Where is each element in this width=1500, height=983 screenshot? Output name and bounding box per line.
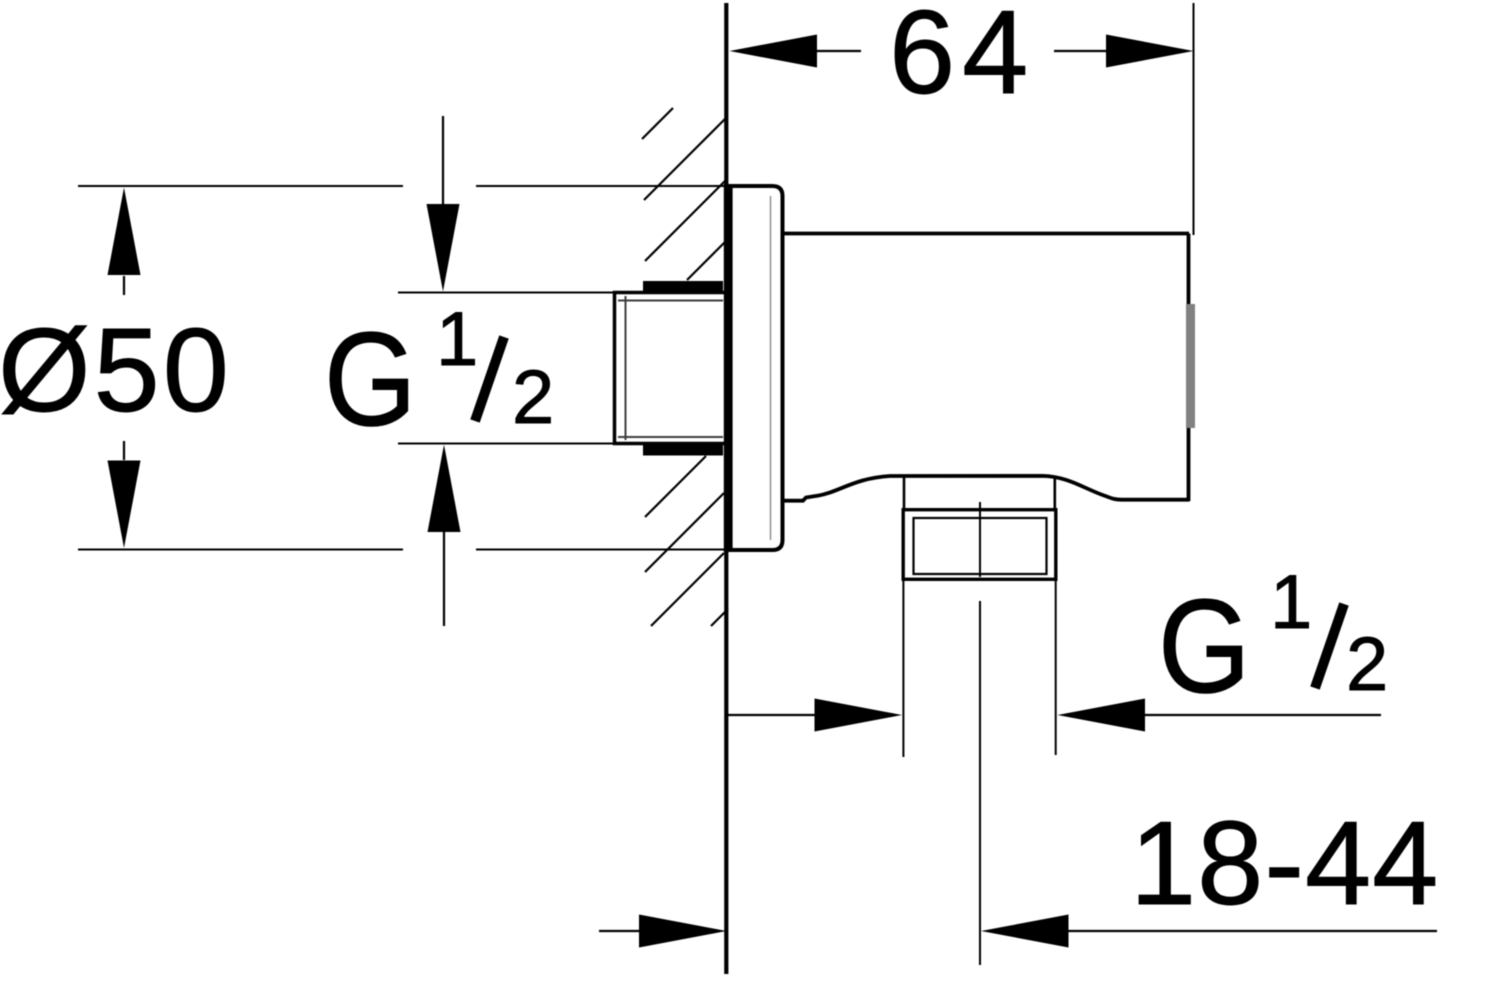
label G12 inlet slash [475,337,504,421]
hex nut inner [914,518,1047,574]
pipe top line [398,292,616,294]
label G12 outlet slash [1315,604,1344,688]
dimension 64 arrow left [730,35,818,68]
inlet thread inner bottom [618,436,723,438]
dimension G12 inlet bottom line [443,532,445,626]
inlet top black band [643,281,723,293]
dimension 64 arrow right [1106,35,1194,68]
dimension 18-44 arrow left [981,915,1069,948]
outlet neck left [903,477,906,510]
svg-text:Ø50: Ø50 [0,304,232,437]
body right edge upper [1187,234,1191,306]
svg-text:2: 2 [1346,622,1388,707]
extension line D50 top right [476,185,727,187]
escutcheon inner highlight line [770,196,772,540]
body right edge gray band [1186,304,1195,428]
hatch U4 [687,242,725,280]
dimension G12 outlet arrow right [815,699,903,732]
centerline outlet upper [979,502,981,577]
body right edge lower [1187,428,1191,501]
hatch L3 [651,553,724,626]
extension line D50 bottom left [78,549,403,551]
escutcheon plate [724,184,733,552]
extension line 64 right [1193,3,1195,235]
inlet bottom black band [643,444,723,456]
hatch L2 [645,493,724,572]
centerline outlet lower [979,601,981,965]
svg-text:1: 1 [436,297,478,382]
dimension 18-44 right tail [1068,930,1437,932]
dimension D50 line top [123,276,125,295]
extension line D50 bottom right [476,549,727,551]
inlet thread block [615,293,726,444]
inlet thread inner top [618,300,723,302]
body top edge [783,232,1190,236]
hatch U1 [642,108,673,139]
hex nut outer [903,510,1056,580]
body bottom contour [784,476,1190,501]
dimension 64 left tail [817,50,861,52]
dimension D50 line bottom [123,441,125,460]
svg-text:18-44: 18-44 [1130,797,1439,930]
dimension G12 inlet arrow down [427,204,460,292]
dimension 18-44 arrow right [639,915,727,948]
extension line D50 top left [78,185,403,187]
dimension G12 inlet top line [442,116,444,205]
dimension 18-44 left tail [599,930,641,932]
dimension G12 outlet arrow left [1058,699,1146,732]
wall line [724,3,728,974]
outlet neck right [1054,477,1057,510]
dimension G12 outlet left tail [727,714,816,716]
dimension D50 arrow up [108,188,141,276]
pipe bottom line [398,443,616,445]
inlet thread inner vertical [625,296,627,440]
hatch L1 [645,456,706,517]
hatch L4 [711,609,728,626]
extension line nut right [1055,580,1057,755]
svg-text:1: 1 [1270,560,1312,645]
dimension D50 arrow down [108,461,141,549]
extension line nut left [902,580,904,757]
dimension G12 inlet arrow up [428,445,461,532]
svg-text:G: G [324,305,417,454]
dimension G12 outlet right tail [1145,714,1381,716]
hatch U3 [645,180,726,261]
svg-text:2: 2 [512,355,554,440]
svg-text:64: 64 [889,0,1035,119]
hatch U2 [644,118,726,200]
dimension 64 right tail [1054,50,1107,52]
svg-text:G: G [1158,572,1251,721]
